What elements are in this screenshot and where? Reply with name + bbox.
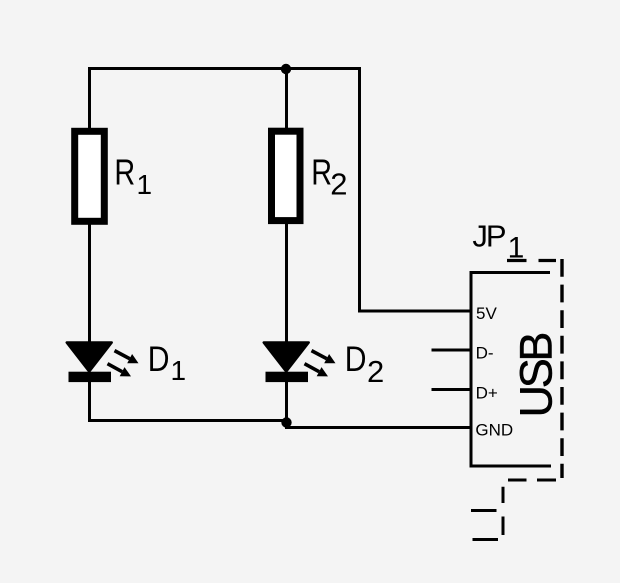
wire bottom horizontal left segment bbox=[88, 419, 288, 422]
wire D1 bottom bbox=[88, 381, 91, 421]
svg-text:1: 1 bbox=[171, 355, 187, 386]
wire R2 top vertical bbox=[285, 69, 288, 131]
svg-text:D+: D+ bbox=[476, 384, 498, 403]
svg-text:5V: 5V bbox=[476, 304, 497, 323]
wire GND horizontal to pin bbox=[285, 426, 471, 429]
wire R2 bottom to D2 bbox=[285, 222, 288, 345]
resistor R1 bbox=[75, 131, 105, 221]
svg-text:R: R bbox=[311, 151, 332, 192]
svg-text:USB: USB bbox=[511, 334, 562, 418]
node junction bottom bbox=[281, 417, 291, 427]
svg-text:1: 1 bbox=[137, 169, 153, 200]
node junction top bbox=[281, 64, 291, 74]
svg-text:JP: JP bbox=[472, 219, 506, 254]
wire R1 bottom to D1 bbox=[88, 223, 91, 345]
wire right vertical down to 5V bbox=[358, 67, 361, 311]
LED D1 bbox=[67, 343, 139, 383]
svg-text:2: 2 bbox=[330, 166, 347, 201]
svg-text:2: 2 bbox=[367, 354, 384, 389]
LED D2 bbox=[264, 343, 336, 383]
svg-text:R: R bbox=[114, 151, 135, 192]
connector JP1 USB body solid outline bbox=[470, 271, 552, 468]
connector JP1 USB shield dashed outline bbox=[471, 259, 562, 540]
svg-text:D: D bbox=[148, 339, 170, 379]
wire 5V horizontal into pin bbox=[358, 310, 471, 313]
svg-text:GND: GND bbox=[475, 421, 513, 440]
wire top horizontal left segment bbox=[88, 67, 287, 70]
wire D- stub bbox=[432, 349, 472, 352]
wire D+ stub bbox=[432, 388, 472, 391]
wire top horizontal right segment bbox=[287, 67, 360, 70]
wire top-left vertical (V+ to R1) bbox=[88, 69, 91, 131]
svg-text:D: D bbox=[345, 339, 367, 379]
svg-text:D-: D- bbox=[476, 343, 494, 362]
wire D2 bottom bbox=[285, 381, 288, 423]
resistor R2 bbox=[272, 131, 301, 220]
